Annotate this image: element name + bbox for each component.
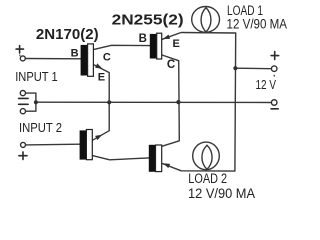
wire input1- and input2- to rail <box>26 93 36 111</box>
junction node input common <box>34 100 38 104</box>
svg-text:12 V/90 MA: 12 V/90 MA <box>188 185 256 201</box>
wire Q3 collector to Q4 base <box>92 156 148 160</box>
svg-text:2N255(2): 2N255(2) <box>112 11 184 28</box>
lamp LOAD2 <box>193 142 220 170</box>
minus bar input2 <box>19 103 29 105</box>
transistor Q3 emitter arrow <box>95 135 102 141</box>
svg-text:12 V/90 MA: 12 V/90 MA <box>227 17 288 32</box>
wire Q1 collector to Q2 base <box>93 45 149 49</box>
plus sign input2 <box>19 152 27 160</box>
terminal input1 + <box>20 56 25 61</box>
wire input2+ to Q3 base <box>26 143 80 146</box>
minus bar battery <box>271 108 278 110</box>
svg-text:INPUT 2: INPUT 2 <box>19 121 62 135</box>
junction node battery + branch <box>233 66 237 70</box>
plus sign input1 <box>16 46 23 53</box>
wire Q2 collector down to Q4 collector <box>162 55 180 146</box>
transistor Q2 emitter arrow (into bar) <box>163 35 170 40</box>
svg-text:E: E <box>173 38 180 50</box>
svg-text:2N170(2): 2N170(2) <box>36 26 99 43</box>
dotted tail below battery plus circle <box>274 75 275 77</box>
svg-text:E: E <box>98 72 105 84</box>
junction node emitters on rail <box>107 100 111 104</box>
svg-text:B: B <box>139 33 147 45</box>
minus bar input1 <box>19 97 29 99</box>
wire branch to battery + <box>235 67 271 70</box>
transistor Q2 2N255 bar <box>150 33 162 59</box>
transistor Q1 emitter arrow <box>95 63 102 68</box>
transistor Q4 emitter arrow (into bar) <box>163 163 170 168</box>
terminal battery + <box>271 66 277 72</box>
svg-text:LOAD 2: LOAD 2 <box>188 171 227 186</box>
terminal input1 - <box>20 91 25 96</box>
transistor Q4 2N255 bar <box>149 145 162 172</box>
svg-text:INPUT 1: INPUT 1 <box>15 70 58 84</box>
transistor Q1 2N170 bar <box>81 44 94 76</box>
svg-text:C: C <box>167 59 175 71</box>
svg-text:B: B <box>71 47 79 59</box>
wire Q2 emitter, top rail, right rail, bottom rail, Q4 emitter <box>162 33 236 172</box>
plus sign battery <box>271 52 279 60</box>
lamp LOAD1 <box>192 7 220 33</box>
terminal battery - <box>271 100 277 106</box>
wire common rail to minus terminal <box>36 101 272 103</box>
terminal input2 + <box>21 142 26 147</box>
svg-text:12 V: 12 V <box>256 77 277 92</box>
svg-text:C: C <box>103 51 111 63</box>
wire input1+ to Q1 base <box>25 58 80 60</box>
dotted tail below input1 plus <box>19 55 20 57</box>
transistor Q3 2N170 bar <box>80 130 93 160</box>
junction node Q2 collector on rail <box>176 100 180 104</box>
terminal input2 - <box>20 109 25 114</box>
wire Q1 emitter / Q3 emitter vertical <box>93 64 110 140</box>
